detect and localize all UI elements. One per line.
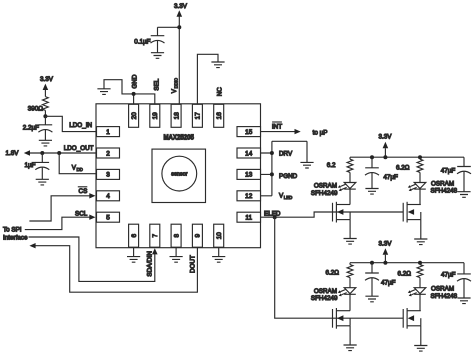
- junction rail-R A: [418, 155, 422, 159]
- wire Q source to ground (A1): [349, 220, 351, 239]
- wire LED to Q drain (A2): [419, 189, 421, 204]
- wire rail to R (B2): [419, 263, 421, 265]
- op-amp U1 MAX25205 IC body: [96, 104, 261, 248]
- pin 10: [214, 224, 224, 247]
- wire R to LED (A2): [419, 172, 421, 182]
- wire R to LED (B2): [419, 278, 421, 288]
- ground below C2: [36, 179, 49, 185]
- svg-text:17: 17: [195, 112, 202, 120]
- svg-text:10: 10: [216, 232, 223, 240]
- svg-text:47µF: 47µF: [381, 280, 396, 287]
- pin 20: [129, 104, 139, 127]
- wire ELED down to lower gates: [275, 217, 404, 318]
- ground Q1 source: [344, 239, 357, 245]
- pin 8: [171, 224, 181, 247]
- svg-text:to µP: to µP: [313, 130, 328, 137]
- svg-text:sensor: sensor: [171, 172, 187, 178]
- ground cap (A2): [457, 192, 470, 198]
- label INT (overline): [272, 122, 282, 130]
- svg-text:OSRAM: OSRAM: [314, 183, 337, 190]
- svg-text:47µF: 47µF: [441, 272, 456, 279]
- svg-text:1µF: 1µF: [25, 162, 36, 169]
- svg-text:SFH4248: SFH4248: [431, 188, 458, 195]
- wire R1 to node: [44, 110, 46, 116]
- svg-text:390Ω: 390Ω: [28, 106, 44, 113]
- svg-text:11: 11: [245, 215, 252, 222]
- capacitor 47µF (B1): [365, 263, 379, 273]
- svg-text:6.2Ω: 6.2Ω: [398, 270, 412, 277]
- svg-text:0.1µF: 0.1µF: [134, 38, 150, 45]
- wire DOUT from pin 9 to SPI: [29, 243, 197, 292]
- svg-text:OSRAM: OSRAM: [314, 288, 337, 295]
- svg-text:NC: NC: [216, 87, 223, 97]
- junction C2 tap: [40, 151, 44, 155]
- svg-text:To SPI: To SPI: [3, 227, 22, 234]
- svg-text:SEL: SEL: [154, 78, 161, 90]
- svg-text:CS: CS: [79, 188, 88, 195]
- wire LED to Q drain (A1): [349, 189, 351, 204]
- svg-text:3.3V: 3.3V: [174, 3, 188, 10]
- junction PGND: [270, 172, 274, 176]
- transistor Q1 NMOS: [333, 202, 351, 223]
- supply 3.3V (LDO_IN): [40, 76, 54, 97]
- wire Q source to ground (A2): [420, 220, 422, 239]
- svg-text:3.3V: 3.3V: [40, 76, 54, 83]
- svg-text:3: 3: [106, 172, 110, 179]
- junction VDD tap: [57, 151, 61, 155]
- svg-text:LDO_OUT: LDO_OUT: [64, 145, 94, 152]
- svg-text:GND: GND: [132, 74, 139, 88]
- svg-text:9: 9: [195, 233, 202, 237]
- supply 3.3V (B): [379, 240, 393, 262]
- svg-text:5: 5: [106, 215, 110, 222]
- wire SCL from SPI: [25, 215, 96, 230]
- wire rail to R (A2): [419, 157, 421, 159]
- svg-text:16: 16: [216, 112, 223, 120]
- ground Q3 source: [344, 345, 357, 351]
- junction ELED: [273, 215, 277, 219]
- junction VDDIO bypass: [177, 25, 181, 29]
- svg-text:14: 14: [245, 150, 253, 157]
- svg-text:DRV: DRV: [279, 151, 293, 158]
- pin 13: [237, 169, 261, 179]
- wire GND/SEL to ground: [104, 80, 155, 105]
- svg-text:ELED: ELED: [264, 210, 281, 217]
- pin 11: [237, 212, 261, 222]
- wire 3.3V rail (A): [350, 156, 464, 158]
- capacitor C3 0.1µF: [151, 27, 165, 35]
- pin 7: [150, 224, 160, 247]
- wire R to LED (B1): [349, 278, 351, 288]
- pin 12: [237, 191, 261, 201]
- resistor 6.2Ω (B1): [347, 265, 353, 278]
- LED OSRAM SFH4249 (B): [338, 288, 356, 297]
- pin 6: [129, 224, 139, 247]
- wire Q source to ground (B2): [420, 326, 422, 346]
- ground pin 17: [211, 62, 224, 68]
- pin 18: [171, 104, 181, 127]
- resistor 6.2Ω (A2): [417, 159, 423, 172]
- svg-text:1: 1: [106, 129, 110, 136]
- wire INT to µP: [261, 129, 301, 134]
- junction rail-R B: [418, 261, 422, 265]
- ground pin 6: [127, 257, 140, 263]
- pin 1: [97, 127, 120, 137]
- junction rail-supply B: [383, 261, 387, 265]
- wire to LDO_IN pin 1: [45, 116, 96, 131]
- wire LED to Q drain (B1): [349, 294, 351, 310]
- wire pin 17 to ground: [197, 54, 218, 104]
- svg-text:Interface: Interface: [3, 235, 28, 242]
- ground DRV net: [300, 162, 313, 168]
- label CS (overline): [78, 187, 88, 195]
- svg-text:SFH4248: SFH4248: [431, 293, 458, 300]
- pin 15: [237, 127, 261, 137]
- ground cap (B1): [365, 296, 378, 302]
- ground cap (A1): [365, 189, 378, 195]
- svg-text:DOUT: DOUT: [189, 255, 196, 273]
- svg-text:1.8V: 1.8V: [6, 150, 20, 157]
- capacitor C1 2.2µF: [39, 116, 53, 125]
- capacitor C2 1µF: [36, 153, 50, 162]
- junction DRV: [270, 151, 274, 155]
- resistor R1 390Ω: [43, 97, 49, 111]
- svg-text:SFH4249: SFH4249: [311, 295, 338, 302]
- svg-text:DDIO: DDIO: [174, 77, 179, 88]
- resistor 6.2Ω (B2): [417, 265, 423, 278]
- svg-text:4: 4: [106, 193, 110, 200]
- wire to VDD pin 3: [59, 153, 96, 174]
- pin 5: [97, 212, 120, 222]
- LED OSRAM SFH4249 (A): [338, 183, 356, 192]
- svg-text:DD: DD: [77, 167, 83, 172]
- ground pin 8: [170, 257, 183, 263]
- pin 4: [97, 191, 120, 201]
- svg-text:3.3V: 3.3V: [379, 134, 393, 141]
- wire CS from SPI: [29, 193, 95, 221]
- capacitor 47µF (A2): [457, 157, 471, 166]
- resistor 6.2Ω (A1): [347, 159, 353, 172]
- svg-text:15: 15: [245, 129, 253, 136]
- wire ELED to gates: [261, 212, 404, 217]
- wire Q source to ground (B1): [349, 326, 351, 345]
- ground below C3: [151, 53, 164, 59]
- pin 17: [192, 104, 202, 127]
- node LDO_IN junction: [43, 114, 47, 118]
- svg-text:7: 7: [152, 233, 159, 237]
- pin 2: [97, 148, 120, 158]
- ground Q2 source: [414, 239, 427, 245]
- wire pin 6 to ground: [133, 247, 135, 256]
- junction rail-cap A: [370, 155, 374, 159]
- svg-text:13: 13: [245, 172, 253, 179]
- svg-text:6: 6: [131, 233, 138, 237]
- wire pin 8 to ground: [175, 247, 177, 256]
- svg-text:3.3V: 3.3V: [379, 240, 393, 247]
- wire 3.3V rail (B): [350, 262, 464, 264]
- wire pin 10 to ground: [218, 247, 220, 256]
- wire to bypass cap: [158, 26, 180, 28]
- label VDDIO: [171, 77, 179, 93]
- junction rail-supply A: [383, 155, 387, 159]
- transistor Q2 NMOS: [403, 202, 421, 223]
- svg-text:SFH4249: SFH4249: [311, 190, 338, 197]
- svg-text:8: 8: [173, 233, 180, 237]
- svg-text:INT: INT: [272, 123, 282, 130]
- capacitor 47µF (A1): [365, 157, 379, 168]
- junction GND pin stub: [132, 92, 136, 96]
- svg-text:LDO_IN: LDO_IN: [69, 122, 92, 129]
- ground cap (B2): [457, 298, 470, 304]
- pin 19: [150, 104, 160, 127]
- svg-text:20: 20: [131, 112, 138, 120]
- wire SDA/DIN from SPI to pin 7: [29, 237, 158, 281]
- svg-text:OSRAM: OSRAM: [431, 181, 454, 188]
- LED OSRAM SFH4248 (A): [408, 183, 426, 192]
- svg-text:18: 18: [173, 112, 180, 120]
- svg-text:SDA/DIN: SDA/DIN: [147, 251, 154, 277]
- wire R to LED (A1): [349, 172, 351, 182]
- svg-text:MAX25205: MAX25205: [163, 135, 194, 142]
- ground Q4 source: [414, 346, 427, 352]
- svg-text:47µF: 47µF: [383, 174, 398, 181]
- junction rail-cap B: [370, 261, 374, 265]
- supply 3.3V (A): [379, 134, 393, 158]
- svg-text:2.2µF: 2.2µF: [23, 124, 39, 131]
- ground below C1: [39, 140, 52, 146]
- svg-text:OSRAM: OSRAM: [431, 286, 454, 293]
- transistor Q4 NMOS: [403, 308, 421, 329]
- svg-text:6.2Ω: 6.2Ω: [326, 270, 340, 277]
- sensor element: [152, 149, 206, 202]
- pin 14: [237, 148, 261, 158]
- supply 3.3V (VDDIO): [174, 3, 188, 104]
- wire rail to R (B1): [349, 263, 351, 265]
- svg-text:2: 2: [106, 150, 110, 157]
- pin 3: [97, 169, 120, 179]
- wire LED to Q drain (B2): [419, 294, 421, 310]
- svg-text:PGND: PGND: [279, 173, 298, 180]
- svg-text:LED: LED: [284, 195, 293, 200]
- svg-text:6.2: 6.2: [327, 162, 336, 169]
- node 1.8V output: [6, 150, 96, 157]
- svg-text:6.2Ω: 6.2Ω: [396, 165, 410, 172]
- ground pin 10: [212, 257, 225, 263]
- net DRV/PGND/VLED wires: [261, 141, 308, 196]
- transistor Q3 NMOS: [333, 308, 351, 329]
- wire rail to R (A1): [349, 157, 351, 159]
- svg-text:19: 19: [152, 112, 159, 120]
- ground for GND/SEL pins: [97, 89, 110, 95]
- svg-text:12: 12: [245, 193, 253, 200]
- pin 16: [214, 104, 224, 127]
- LED OSRAM SFH4248 (B): [408, 288, 426, 297]
- pin 9: [192, 224, 202, 247]
- svg-text:SCL: SCL: [75, 211, 88, 218]
- capacitor 47µF (B2): [457, 263, 471, 274]
- svg-text:47µF: 47µF: [441, 167, 456, 174]
